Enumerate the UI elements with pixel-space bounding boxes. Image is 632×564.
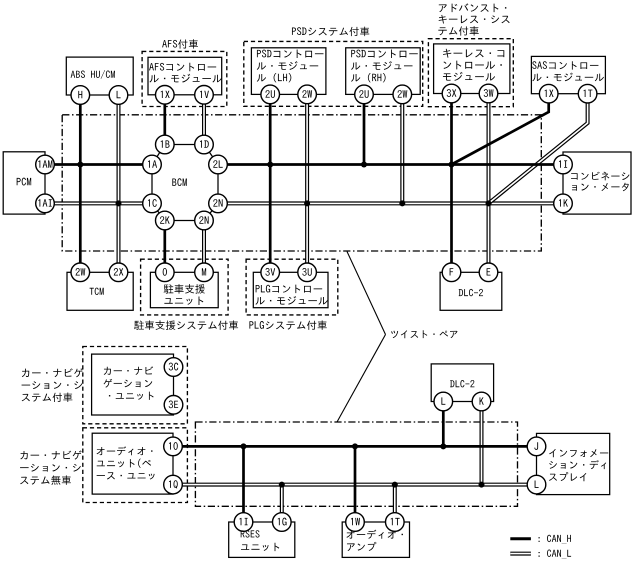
advanced keyless option dashed box [428,39,513,107]
pin 2N bottom (BCM) [195,211,214,230]
pin 1W (amp) [346,513,365,532]
label of pin 2W (PSD LH) [302,90,312,98]
text "PLGシステム付車" [249,320,326,329]
pin M (parking assist) [195,263,214,282]
box SAS control module [531,56,605,93]
box AFS control module [148,57,222,95]
wire CAN_L bus right segment (2N to 1K) [218,201,554,205]
text "アンプ" [347,542,376,551]
label of pin 2N right (BCM) [213,199,222,207]
pin 1Q (audio unit) [164,475,183,494]
pin 3W (keyless) [479,84,498,103]
label of pin 1A (BCM) [148,160,157,167]
wire SAS 1T diagonal to CAN_L [489,94,588,204]
pin 1X (SAS) [539,84,558,103]
label of pin K (DLC-2 lower) [480,397,484,404]
text "オーディオ・" [346,530,403,539]
text "オーディオ・" [97,446,153,455]
wire AFS 1X to BCM 1B [163,95,166,145]
pin 1V (AFS) [195,86,214,105]
pin 1T (amp) [386,513,405,532]
label of pin 1I (RSES) [239,518,247,525]
box PSD control module RH [346,48,421,95]
label of pin 1X (AFS) [161,91,170,98]
box keyless control module [434,44,510,94]
label of pin 1AM (PCM) [38,160,52,167]
pin 2W (PSD RH) [393,85,412,104]
text "ユニット(ベ" [97,459,151,468]
box RSES unit [229,522,295,557]
wire DLC-2 K drop [480,402,484,485]
label of pin 2W (TCM) [75,268,85,276]
label of pin 3W (keyless) [484,89,494,97]
junction CAN_H x PSD LH [267,162,273,168]
text "AFSコントロー" [149,63,216,72]
wire lower CAN_H bus (1O to J) [173,445,537,448]
pin L (DLC-2 lower) [434,392,453,411]
label of pin J (info display) [534,442,538,450]
pin 1D (BCM) [195,135,214,154]
text "ユニット" [241,543,279,551]
text "インフォメー" [549,449,608,457]
label of pin E (DLC-2) [487,268,491,275]
label of pin F (DLC-2) [450,268,454,275]
wire CAN_L bus left segment (1AI to 1C) [45,201,152,205]
text "・ユニット" [109,392,154,400]
text "SASコントロー" [532,61,598,69]
text "ゲーション" [104,379,153,388]
text "DLC-2" [450,380,474,387]
junction CAN_H x ABS/TCM [77,162,83,168]
wire RSES 1G drop [280,485,284,522]
text "キーレス・コ" [443,49,504,58]
label of pin 1O (audio unit) [169,442,178,450]
AFS option dashed box [142,51,227,106]
text "ション・ディ" [549,460,606,469]
pin 3X (keyless) [442,84,461,103]
text "ABS HU/CM" [71,70,115,79]
wire CAN_H bus left segment (1AM to 1A) [45,163,152,166]
text "ーション・シ" [20,464,81,472]
text "ース・ユニッ" [97,472,155,479]
label of pin 3U (PLG) [302,268,311,276]
pin 1O (audio unit) [164,437,183,456]
twisted-pair boundary (upper bus) [62,115,541,251]
pin 1X (AFS) [156,86,175,105]
label of pin 1V (AFS) [200,91,209,98]
pin 2U (PSD LH) [261,85,280,104]
junction CAN_L x PSD RH [399,200,405,206]
text "駐車支援" [164,284,205,294]
pin 2N right (BCM) [209,194,228,213]
text "AFS付車" [162,39,198,48]
junction lower CAN_L x RSES [279,482,285,488]
label of pin 1K (combination meter) [559,199,568,206]
text "PLGコントロー" [256,285,323,294]
pin L (ABS) [109,86,128,105]
pin 1T (SAS) [578,84,597,103]
label of pin 2W (PSD RH) [397,90,407,98]
text "RSES" [241,530,260,537]
twisted-pair boundary (lower bus) [195,422,517,506]
wire PSD RH 2W drop [400,94,404,203]
label of pin 3C (nav unit) [169,363,179,371]
label of pin 1G (RSES) [278,518,287,526]
pin 3U (PLG) [298,263,317,282]
wire amp 1W drop [354,446,357,522]
junction lower CAN_L x DLC-2 K [479,482,485,488]
text "ル・モジュール" [149,74,221,83]
junction CAN_L x keyless/DLC/SAS [486,200,492,206]
junction CAN_L x ABS/TCM [116,200,122,206]
text "キーレス・シス" [439,15,510,24]
wire DLC-2 L drop [442,402,445,447]
label of pin L (DLC-2 lower) [441,397,445,404]
label of pin 2L (BCM) [213,160,223,168]
label of pin 1T (SAS) [584,90,593,97]
label of pin 2U (PSD RH) [359,90,368,98]
box parking assist unit [150,272,218,307]
box information display [537,433,610,494]
wire BCM 2N to parking M [202,221,206,273]
label of pin L (info display) [535,480,539,487]
junction lower CAN_H x DLC-2 L [440,443,446,449]
text "カー・ナビ" [104,366,153,375]
car navigation (without) dashed box [83,428,188,503]
pin L (info display) [527,475,546,494]
pin 2W (TCM) [71,263,90,282]
box ABS HU/CM [66,57,133,95]
text "PSDコントロー" [257,50,324,59]
text "アドバンスト・" [439,3,507,12]
label of pin 1D (BCM) [200,140,209,147]
wire keyless 3W / DLC-2 E vertical [487,94,491,273]
wire CAN_H bus right segment (2L to 1I) [218,163,554,166]
text "ステム付車" [22,393,73,402]
pin K (DLC-2 lower) [472,392,491,411]
wire keyless 3X / DLC-2 F vertical [450,94,453,273]
box DLC-2 upper [440,272,502,310]
text "ョン・メータ" [572,183,629,191]
label of pin 1I (combination meter) [559,160,567,167]
pin J (info display) [527,437,546,456]
pin 1I (RSES) [234,513,253,532]
pin 2K (BCM) [156,211,175,230]
pin 1AI (PCM) [36,194,55,213]
pin 1K (combination meter) [554,194,573,213]
text "モジュール" [443,72,495,81]
wire ABS L / TCM 2X vertical [117,95,121,272]
PSD option dashed box [244,41,423,106]
wire PSD RH 2U drop [363,94,366,164]
twisted-pair pointer line upper [347,252,386,335]
text "ル (LH)" [257,73,292,82]
text "カー・ナビゲ" [20,450,81,459]
wire amp 1T drop [393,485,397,522]
pin E (DLC-2) [479,263,498,282]
label of pin 3X (keyless) [447,89,457,97]
text "ル (RH)" [351,73,386,82]
wire PSD LH 2W / PLG 3U vertical [305,94,309,272]
pin H (ABS) [71,86,90,105]
label of pin 3E (nav unit) [169,400,178,408]
box TCM [67,272,133,310]
pin 2W (PSD LH) [298,85,317,104]
text "スプレイ" [549,472,586,481]
label of pin 2N bottom (BCM) [199,216,208,224]
wire SAS 1X diagonal to CAN_H [452,94,549,165]
label of pin H (ABS) [78,91,82,98]
text "ル・モジュー" [257,61,318,70]
box PCM [3,152,45,214]
text "TCM" [90,288,104,295]
label of pin 1T (amp) [391,518,400,525]
PLG option dashed box [246,259,338,315]
text "ーション・シ" [22,381,83,389]
pin 1G (RSES) [273,513,292,532]
pin 3E (nav unit) [164,396,183,415]
box PLG control module [253,272,328,307]
label of pin 1B (BCM) [161,140,170,147]
label of pin 2U (PSD LH) [265,90,274,98]
junction CAN_L x PSD LH [304,200,310,206]
text "ル・モジュー" [351,61,412,70]
label of pin 1Q (audio unit) [169,480,178,488]
pin 1C (BCM) [143,194,162,213]
junction lower CAN_L x amp [392,482,398,488]
text "PSDシステム付車" [292,27,369,36]
text "BCM" [172,178,187,186]
pin 2U (PSD RH) [355,85,374,104]
parking assist option dashed box [141,259,229,315]
pin 2L (BCM) [209,155,228,174]
box BCM (octagon) [152,145,218,221]
box PSD control module LH [251,48,326,95]
text ": CAN_L" [539,549,572,558]
pin 1AM (PCM) [36,155,55,174]
label of pin 1AI (PCM) [38,199,51,206]
label of pin L (ABS) [117,91,121,98]
junction CAN_H x PSD RH [361,162,367,168]
text "テム付車" [438,26,478,35]
pin F (DLC-2) [442,263,461,282]
junction CAN_H x keyless/DLC/SAS [449,162,455,168]
box DLC-2 lower [431,364,493,402]
text "ル・モジュール" [532,73,604,82]
wire ABS H / TCM 2W vertical [79,95,82,272]
label of pin O (parking assist) [163,268,167,276]
text "ントロール・" [443,61,501,70]
text "ツイスト・ペア" [391,330,457,338]
text "DLC-2" [459,289,483,296]
wire RSES 1I drop [242,446,245,522]
text "ル・モジュール" [255,296,327,305]
label of pin 2X (TCM) [114,268,124,276]
box audio unit [92,433,173,494]
pin 3V (PLG) [261,263,280,282]
label of pin 1W (amp) [351,518,360,525]
text "駐車支援システム付車" [134,320,238,330]
wire lower CAN_L bus (1Q to L) [173,483,537,487]
label of pin 2K (BCM) [160,216,170,224]
wire PSD LH 2U / PLG 3V vertical [269,94,272,272]
pin 3C (nav unit) [164,358,183,377]
text ": CAN_H" [539,535,571,544]
pin 2X (TCM) [109,263,128,282]
box audio amp [342,522,409,557]
box combination meter [563,152,631,214]
pin 1A (BCM) [143,155,162,174]
label of pin 3V (PLG) [265,268,275,276]
text "PCM" [17,178,32,186]
pin O (parking assist) [156,263,175,282]
wire BCM 2K to parking O [163,221,166,273]
label of pin M (parking assist) [202,268,206,275]
text "カー・ナビゲ" [22,368,83,377]
label of pin 1C (BCM) [148,199,157,207]
text "ユニット" [164,296,203,305]
text "ステム無車" [20,475,71,485]
label of pin 1X (SAS) [545,90,554,97]
pin 1B (BCM) [156,135,175,154]
pin 1I (combination meter) [554,155,573,174]
junction lower CAN_H x amp [352,443,358,449]
wire AFS 1V to BCM 1D [202,95,206,145]
text "コンビネーシ" [571,172,629,181]
twisted-pair pointer line lower [337,335,386,423]
box car navigation unit [92,354,174,415]
text "PSDコントロー" [351,50,418,59]
legend CAN_L sample [510,552,531,556]
legend CAN_H sample [510,537,531,540]
car navigation (with) dashed box [83,347,188,424]
junction lower CAN_H x RSES [241,443,247,449]
